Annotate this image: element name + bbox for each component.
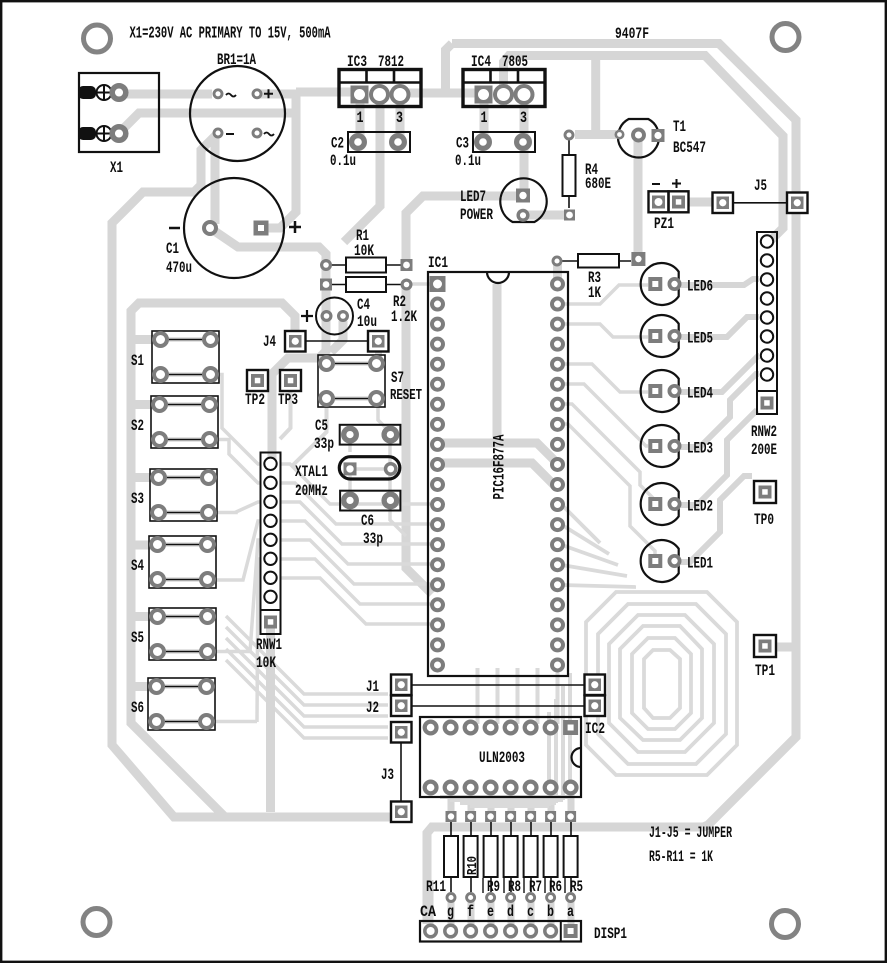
wire RNW1 pin7 to IC1 [281, 559, 430, 604]
wire ring drop 4 [568, 673, 572, 797]
piezo PZ1 [649, 179, 689, 233]
mounting hole bottom-right [772, 911, 799, 938]
wire rail stub to S4 [131, 541, 157, 550]
wire RNW1 pin8 to IC1 [281, 578, 430, 624]
svg-text:J1: J1 [366, 678, 379, 696]
wire IC1 cross B [438, 463, 556, 487]
wire RNW1 common down [266, 628, 275, 812]
switch S1 [131, 331, 219, 383]
svg-text:PIC16F877A: PIC16F877A [491, 434, 509, 499]
svg-text:b: b [547, 903, 554, 921]
wire switch pad link bottom [163, 649, 202, 654]
jumper J5 [713, 177, 808, 213]
wire IC1 to IC2 pin 1 [476, 668, 480, 724]
resistor network RNW1 [256, 453, 282, 673]
wire bus to IC2 area 4 [226, 649, 388, 727]
wire IC1 to IC2 ring 3 [609, 615, 714, 752]
svg-text:DISP1: DISP1 [594, 925, 627, 943]
svg-text:POWER: POWER [460, 206, 493, 224]
wire rail stub to S3 [131, 473, 157, 482]
wire LED3 to RNW2 [681, 374, 759, 447]
wire S6 to RNW1 pin6 [211, 559, 261, 722]
svg-text:R5-R11 = 1K: R5-R11 = 1K [649, 848, 713, 866]
wire IC1 to LED2 [562, 404, 655, 500]
wire RNW1 pin6 to IC1 [281, 540, 430, 584]
wire ring drop 3 [561, 686, 565, 800]
note X1 rating [130, 25, 331, 44]
svg-text:1.2K: 1.2K [391, 308, 417, 326]
svg-text:R7: R7 [529, 878, 542, 896]
capacitor C4 [301, 296, 377, 335]
wire rail stub to S5 [131, 612, 157, 621]
svg-text:3: 3 [396, 109, 403, 127]
switch S7 [318, 355, 422, 407]
wire IC2 pin to R7 top [528, 788, 535, 813]
svg-text:9407F: 9407F [615, 25, 649, 43]
svg-text:S7: S7 [391, 369, 404, 387]
svg-text:e: e [487, 903, 494, 921]
svg-text:TP3: TP3 [278, 391, 298, 409]
svg-text:f: f [467, 903, 474, 921]
svg-text:7812: 7812 [378, 53, 404, 71]
svg-text:S1: S1 [131, 352, 144, 370]
resistor R2 [320, 277, 417, 326]
wire IC1 ring tail 5 [562, 585, 636, 587]
LED LED6 [641, 263, 713, 305]
svg-text:R5: R5 [570, 878, 583, 896]
wire LED4 to RNW2 [681, 356, 759, 392]
svg-text:BR1=1A: BR1=1A [217, 51, 256, 69]
svg-text:TP1: TP1 [755, 662, 775, 680]
wire switch pad link bottom [166, 372, 205, 377]
wire ring under IC2 2 [460, 801, 556, 805]
wire LED2 to RNW2 [681, 410, 757, 505]
IC IC2 ULN2003 [420, 717, 605, 797]
wire switch pad link bottom [162, 719, 201, 724]
crystal XTAL1 [295, 457, 400, 500]
svg-text:0.1u: 0.1u [330, 152, 356, 170]
wire R2 to IC1 pin1 [412, 282, 430, 286]
wire IC1 center drop [493, 284, 502, 441]
wire R10 bottom to DISP1 [468, 898, 475, 928]
wire LED6 to RNW2 [681, 279, 759, 285]
wire ring under IC2 4 [440, 795, 570, 799]
wire S1 to RNW1 pin1 [211, 375, 261, 465]
svg-text:1K: 1K [588, 284, 601, 302]
wire IC1 to LED3 [562, 384, 648, 446]
svg-text:J2: J2 [366, 699, 379, 717]
wire switch pad link top [163, 614, 202, 619]
switch S6 [131, 678, 215, 730]
LED LED2 [641, 483, 713, 525]
connector DISP1 [420, 921, 627, 943]
wire inner ring trace [504, 56, 784, 242]
jumper J2 [366, 696, 605, 718]
wire S2 to RNW1 pin2 [211, 440, 261, 484]
test point TP2 [245, 370, 268, 409]
note board id 9407F [615, 25, 649, 43]
labels R5-R11 [426, 878, 583, 896]
svg-text:J4: J4 [263, 333, 276, 351]
wire IC1 to IC2 ring 1 [586, 592, 737, 775]
svg-text:J5: J5 [754, 177, 767, 195]
svg-text:XTAL1: XTAL1 [295, 463, 328, 481]
wire IC2 pin to R8 top [508, 788, 515, 813]
jumper J3 [381, 722, 412, 822]
svg-text:S6: S6 [131, 699, 144, 717]
svg-text:0.1u: 0.1u [455, 152, 481, 170]
svg-text:20MHz: 20MHz [295, 482, 328, 500]
wire ring drop 2 [554, 699, 558, 803]
wire IC1 to IC2 pin 3 [516, 668, 520, 724]
svg-text:S3: S3 [131, 490, 144, 508]
wire XTAL1 to C6 [388, 474, 392, 496]
wire bus to IC2 area 1 [226, 616, 388, 694]
wire IC2 pin to R6 top [548, 788, 555, 813]
wire rail stub to S1 [131, 335, 157, 344]
IC IC1 PIC16F877A [428, 254, 568, 676]
wire outer ring trace [427, 44, 796, 925]
wire node to IC3 in [296, 88, 352, 97]
svg-text:IC4: IC4 [471, 53, 491, 71]
wire CA feed [427, 880, 434, 926]
wire J4 to S7 [375, 350, 382, 360]
resistor R1 [322, 227, 413, 273]
test point TP1 [754, 635, 776, 680]
svg-text:R6: R6 [549, 878, 562, 896]
wire ring under IC2 1 [470, 804, 549, 808]
wire IC1 to LED4 [562, 364, 648, 392]
wire IC1 to LED1 [562, 424, 655, 556]
mounting hole top-right [772, 24, 799, 51]
wire LED5 to RNW2 [681, 317, 759, 337]
wire C3 to LED7 anode [520, 142, 529, 196]
wire switch pad link bottom [164, 510, 203, 515]
svg-text:IC2: IC2 [585, 720, 605, 738]
capacitor C6 [340, 491, 400, 548]
wire BR1 neg to C1 neg [211, 137, 220, 224]
svg-text:PZ1: PZ1 [654, 215, 674, 233]
svg-text:C6: C6 [361, 512, 374, 530]
wire T1 riser to 5V rail [591, 60, 600, 134]
wire R5 bottom to DISP1 [568, 898, 575, 928]
test point TP0 [754, 481, 776, 529]
wire R7 bottom to DISP1 [528, 898, 535, 928]
connector X1 [78, 73, 159, 177]
mounting hole top-left [84, 25, 111, 52]
wire switch rail [131, 303, 295, 817]
wire IC2 pin to R9 top [488, 788, 495, 813]
LED LED3 [641, 425, 713, 467]
svg-text:470u: 470u [166, 259, 192, 277]
labels segments CA g f e d c b a [420, 903, 574, 921]
wire RNW1 pin2 to IC1 [281, 464, 430, 504]
svg-text:RESET: RESET [390, 388, 422, 404]
svg-text:X1=230V AC PRIMARY TO 15V, 500: X1=230V AC PRIMARY TO 15V, 500mA [130, 25, 331, 44]
wire bus to IC2 area 2 [226, 627, 388, 705]
svg-text:TP0: TP0 [754, 511, 774, 529]
wire BR1 pos to node [257, 90, 296, 99]
svg-text:680E: 680E [585, 175, 611, 193]
wire S5 to RNW1 pin5 [211, 540, 261, 652]
wire switch pad link bottom [332, 396, 371, 401]
svg-text:IC3: IC3 [347, 53, 367, 71]
bridge rectifier BR1 [190, 51, 285, 161]
wire ring drop 1 [547, 712, 551, 806]
wire IC2 pin to R11 top [448, 788, 455, 813]
wire PZ1 to J5 [688, 198, 714, 207]
svg-text:T1: T1 [673, 118, 686, 136]
wire S3 to RNW1 pin3 [211, 502, 261, 513]
svg-text:BC547: BC547 [673, 139, 706, 157]
svg-text:7805: 7805 [502, 53, 528, 71]
wire C6 left up [348, 474, 352, 496]
wire switch pad link top [165, 402, 204, 407]
wire C1 neg ground run to C4 area [213, 230, 326, 460]
wire IC1 to IC2 pin 4 [536, 668, 540, 724]
wire R8 bottom to DISP1 [508, 898, 515, 928]
wire switch pad link top [163, 542, 202, 547]
wire S4 to RNW1 pin4 [211, 521, 261, 580]
note resistor values [649, 848, 713, 866]
svg-text:10K: 10K [354, 242, 374, 260]
svg-text:J1-J5 = JUMPER: J1-J5 = JUMPER [649, 824, 732, 842]
svg-text:IC1: IC1 [428, 254, 448, 272]
wire X1-2 to BR1 neg node [119, 113, 296, 133]
regulator IC3 [339, 53, 421, 127]
svg-text:LED6: LED6 [687, 278, 713, 296]
regulator IC4 [463, 53, 545, 127]
svg-text:a: a [567, 903, 574, 921]
wire rail stub to S2 [131, 400, 157, 409]
wire C6 right to IC1 [390, 505, 406, 536]
wire RNW1 pin5 to IC1 [281, 521, 430, 564]
wire switch pad link top [332, 361, 371, 366]
svg-text:RNW1: RNW1 [256, 636, 282, 654]
svg-text:10u: 10u [357, 313, 377, 331]
resistor R9 [484, 811, 498, 902]
svg-text:33p: 33p [363, 530, 383, 548]
wire T1 base to R3 [634, 140, 643, 255]
svg-text:X1: X1 [110, 159, 123, 177]
wire X1-1 to BR1 AC1 [119, 90, 212, 99]
wire R3 left to IC1 [553, 262, 562, 280]
svg-text:R8: R8 [508, 878, 521, 896]
switch S4 [131, 536, 216, 588]
wire switch pad link top [166, 337, 205, 342]
wire R4 top to T1 [575, 130, 616, 139]
wire node to C1 pos [263, 90, 296, 228]
transistor T1 [616, 118, 706, 158]
LED LED7 [460, 178, 547, 224]
svg-text:33p: 33p [314, 435, 334, 453]
wire R11 bottom to DISP1 [448, 898, 455, 928]
test point TP3 [278, 370, 301, 409]
wire IC1 to LED5 [562, 324, 648, 337]
wire IC1 to LED6 [562, 285, 648, 304]
wire S7 to RNW1 [292, 402, 327, 466]
svg-text:R11: R11 [426, 878, 446, 896]
wire IC1 ring tail 2 [562, 525, 609, 554]
wire ring under IC2 3 [450, 798, 563, 802]
wire C5 left down [348, 440, 352, 452]
resistor R11 [444, 811, 458, 902]
svg-text:1: 1 [481, 109, 488, 127]
svg-text:LED3: LED3 [687, 440, 713, 458]
wire C5 to XTAL1 [388, 440, 392, 464]
wire LED1 up [681, 476, 752, 562]
wire IC2 pin to R5 top [568, 788, 575, 813]
wire R1 right to LED7 anode [406, 196, 519, 262]
resistor R6 [544, 811, 558, 902]
capacitor C5 [314, 417, 400, 453]
svg-text:LED2: LED2 [687, 498, 713, 516]
wire IC3 in stub [356, 95, 365, 140]
LED LED4 [641, 370, 713, 412]
wire IC1 to IC2 ring 4 [620, 626, 702, 740]
wire R2 right down to IC1 [406, 288, 432, 594]
svg-text:200E: 200E [751, 441, 777, 459]
LED LED5 [641, 315, 713, 357]
wire IC4 in stub [480, 93, 489, 140]
svg-text:LED1: LED1 [687, 555, 713, 573]
capacitor C2 [330, 132, 410, 170]
svg-text:LED5: LED5 [687, 330, 713, 348]
wire C4 right to S7 [331, 321, 343, 352]
switch S3 [131, 469, 217, 521]
wire switch pad link bottom [165, 437, 204, 442]
svg-text:S4: S4 [131, 557, 144, 575]
wire LED7 cathode to R4 [523, 211, 566, 220]
svg-text:C4: C4 [357, 296, 370, 314]
resistor R7 [524, 811, 538, 902]
svg-text:R9: R9 [487, 878, 500, 896]
wire TP3 down [280, 391, 291, 439]
wire bus to IC2 area 5 [226, 660, 388, 738]
wire S7 to C5 [378, 402, 390, 432]
wire IC1 ring tail 3 [562, 545, 618, 565]
wire IC1 ring tail 1 [562, 505, 600, 543]
svg-text:C5: C5 [315, 417, 328, 435]
resistor network RNW2 [751, 232, 777, 459]
svg-text:R10: R10 [465, 856, 481, 875]
wire IC3 out to IC4 in [400, 89, 484, 98]
svg-text:RNW2: RNW2 [751, 423, 777, 441]
wire IC1 cross A [438, 443, 556, 462]
resistor R5 [564, 811, 578, 902]
resistor R10 [464, 811, 482, 902]
wire IC1 to IC2 pin 2 [496, 668, 500, 724]
wire IC1 to IC2 ring 5 [632, 638, 691, 729]
wire RNW1 pin3 to IC1 [281, 483, 430, 524]
resistor R3 [553, 252, 645, 302]
wire left ground rail [112, 135, 392, 817]
svg-text:d: d [507, 903, 514, 921]
svg-text:CA: CA [420, 903, 437, 921]
wire IC3 pin2 down to ground run [344, 97, 380, 242]
svg-text:C1: C1 [166, 240, 179, 258]
switch S5 [131, 608, 216, 660]
svg-text:10K: 10K [256, 654, 276, 672]
svg-text:C2: C2 [331, 135, 344, 153]
svg-text:C3: C3 [456, 135, 469, 153]
wire IC1 to IC2 ring 2 [598, 604, 726, 764]
capacitor C3 [455, 132, 535, 170]
wire rail stub to S6 [131, 682, 157, 691]
svg-text:LED7: LED7 [460, 188, 486, 206]
wire IC1 to IC2 ring 6 [644, 650, 680, 718]
wire IC1 to IC2 pin 5 [556, 668, 560, 724]
svg-text:LED4: LED4 [687, 385, 713, 403]
svg-text:c: c [527, 903, 534, 921]
wire R9 bottom to DISP1 [488, 898, 495, 928]
svg-text:S2: S2 [131, 417, 144, 435]
svg-text:TP2: TP2 [245, 391, 265, 409]
capacitor C1 [166, 178, 301, 278]
wire switch pad link bottom [163, 577, 202, 582]
wire bus to IC2 area 3 [226, 638, 388, 716]
resistor R8 [504, 811, 518, 902]
svg-text:S5: S5 [131, 629, 144, 647]
resistor R4 [563, 131, 612, 221]
jumper J4 [263, 331, 389, 352]
wire TP1 stub [777, 643, 794, 652]
wire 12V riser [446, 44, 453, 93]
wire XTAL1 link [352, 467, 386, 471]
mounting hole bottom-left [83, 909, 110, 936]
wire IC1 ring tail 4 [562, 565, 627, 576]
svg-text:3: 3 [520, 109, 527, 127]
wire switch pad link top [162, 684, 201, 689]
wire RNW1 pin4 to IC1 [281, 502, 430, 544]
note jumpers [649, 824, 732, 842]
svg-text:ULN2003: ULN2003 [479, 749, 525, 767]
wire IC4 out stub [520, 93, 529, 140]
svg-text:g: g [447, 903, 454, 921]
LED LED1 [641, 540, 713, 582]
svg-text:1: 1 [357, 109, 364, 127]
wire IC3 out stub [396, 95, 405, 140]
switch S2 [131, 396, 218, 448]
jumper J1 [366, 675, 605, 697]
wire IC2 pin to R10 top [468, 788, 475, 813]
wire R6 bottom to DISP1 [548, 898, 555, 928]
svg-text:J3: J3 [381, 766, 394, 784]
wire switch pad link top [164, 475, 203, 480]
